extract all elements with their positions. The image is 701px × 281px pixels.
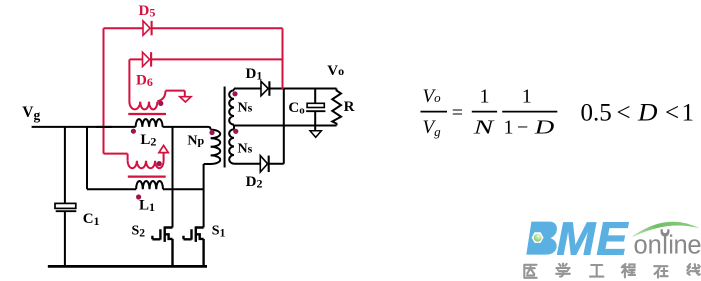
svg-text:1: 1: [522, 86, 532, 108]
svg-text:on: on: [634, 232, 662, 260]
svg-text:1: 1: [480, 86, 490, 108]
svg-text:Vo: Vo: [423, 86, 442, 107]
svg-text:<: <: [617, 100, 631, 127]
svg-text:1: 1: [504, 117, 514, 139]
svg-text:C1: C1: [83, 211, 100, 228]
svg-text:−: −: [517, 117, 528, 139]
svg-text:1: 1: [682, 100, 695, 127]
svg-text:Np: Np: [187, 134, 204, 149]
svg-text:D: D: [533, 117, 555, 139]
svg-text:L2: L2: [140, 132, 156, 149]
svg-text:Ns: Ns: [238, 141, 253, 156]
svg-text:0.5: 0.5: [581, 100, 612, 127]
svg-text:D5: D5: [139, 3, 156, 20]
svg-text:ME: ME: [557, 213, 630, 265]
svg-text:D2: D2: [246, 174, 263, 191]
svg-text:=: =: [452, 102, 463, 124]
svg-text:D1: D1: [246, 66, 263, 83]
svg-text:D: D: [637, 100, 658, 127]
svg-text:L1: L1: [139, 197, 155, 214]
svg-text:ine: ine: [668, 232, 701, 260]
svg-text:R: R: [344, 99, 355, 115]
svg-text:D6: D6: [136, 72, 153, 89]
svg-text:Vo: Vo: [327, 63, 344, 79]
svg-text:Ns: Ns: [238, 100, 253, 115]
svg-text:Vg: Vg: [22, 104, 40, 122]
svg-text:N: N: [472, 117, 495, 139]
svg-text:<: <: [665, 100, 679, 127]
